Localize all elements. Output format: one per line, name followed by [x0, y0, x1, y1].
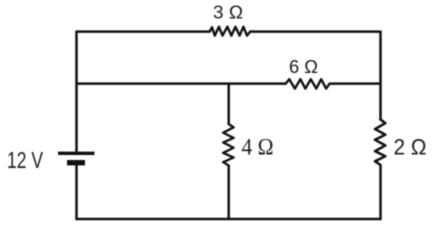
resistor R1 3 ohm — [210, 27, 253, 36]
svg-text:2 Ω: 2 Ω — [394, 135, 427, 160]
svg-text:4 Ω: 4 Ω — [242, 134, 274, 159]
resistor R3 4 ohm — [223, 124, 233, 165]
battery V1 12 V : long positive plate — [58, 152, 95, 155]
wire: left vertical lower (battery to bottom) — [75, 165, 78, 220]
wire: right vertical lower — [379, 165, 382, 220]
wire: left vertical upper (top node to battery) — [75, 31, 78, 152]
wire: middle vertical lower — [227, 165, 230, 220]
resistor R4 2 ohm — [375, 120, 385, 165]
svg-text:12 V: 12 V — [7, 147, 43, 173]
resistor R2 6 ohm — [286, 79, 330, 88]
wire: middle horizontal right segment — [329, 82, 380, 85]
svg-text:3 Ω: 3 Ω — [213, 2, 243, 22]
battery V1 : short thick negative plate — [67, 160, 85, 165]
wire: top left horizontal segment — [76, 30, 210, 33]
wire: right vertical upper — [379, 31, 382, 120]
svg-text:6 Ω: 6 Ω — [289, 57, 318, 77]
wire: bottom horizontal — [76, 218, 382, 221]
wire: middle vertical upper — [227, 84, 230, 125]
wire: top right horizontal segment — [253, 30, 381, 33]
wire: middle horizontal left segment — [76, 82, 287, 85]
